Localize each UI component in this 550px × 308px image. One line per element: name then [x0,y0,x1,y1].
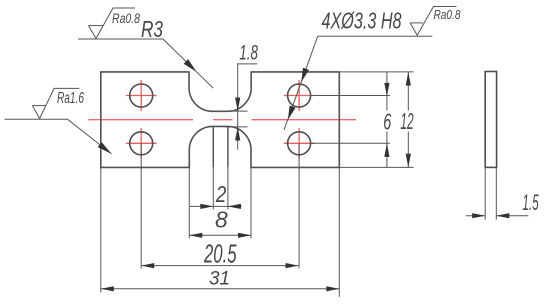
hole crosshair bottom-left (red) [126,128,157,159]
dimension 2 (inner slot width) [190,205,242,207]
extension lines bottom dims [101,143,339,297]
main centerline (red, horizontal axis of part) [88,119,356,121]
dimension 8 (outer slot width) [189,234,251,236]
dimension 31 (plate width) [101,288,339,290]
dimension 6 (hole row spacing) [386,72,388,167]
surface finish symbol Ra0.8 top-left [89,8,136,39]
surface finish symbol Ra0.8 top-right [410,7,456,36]
hole top-right [288,84,311,107]
svg-text:8: 8 [215,206,228,232]
surface finish symbol Ra1.6 left with leader [5,88,112,153]
svg-text:Ra1.6: Ra1.6 [57,90,84,107]
svg-text:12: 12 [400,108,413,134]
svg-text:1.8: 1.8 [239,42,258,65]
svg-text:4XØ3.3 H8: 4XØ3.3 H8 [322,8,402,34]
dimension 1.8 (waist gap) [225,64,257,150]
svg-text:6: 6 [383,109,391,135]
svg-text:R3: R3 [141,16,163,42]
dimension 1.5 (plate thickness) [466,215,528,217]
extension lines side view thickness [485,167,496,219]
dimension 20.5 (hole column spacing) [141,265,298,267]
inner slot left edge (2mm slot) [212,126,214,167]
label 4X diameter 3.3 H8 with leader to holes [284,36,432,130]
part outline front view (plate with top notch and bottom slot) [101,72,339,167]
hole crosshair top-right (red) [284,80,315,111]
extension lines right side [311,72,414,167]
svg-text:1.5: 1.5 [522,190,539,215]
inner slot right edge (2mm slot) [227,126,229,167]
side view plate section [485,72,496,168]
hole crosshair bottom-right (red) [284,128,315,159]
hole top-left [130,84,153,107]
hole bottom-left [130,132,153,155]
dimension 12 (plate height) [407,72,409,167]
svg-text:31: 31 [209,269,230,290]
hole crosshair top-left (red) [126,80,157,111]
svg-text:2: 2 [215,181,226,207]
svg-text:20.5: 20.5 [203,241,237,269]
svg-text:Ra0.8: Ra0.8 [112,11,140,26]
svg-text:Ra0.8: Ra0.8 [434,7,462,22]
leader R3 (notch radius) [78,39,213,88]
hole bottom-right [288,132,311,155]
